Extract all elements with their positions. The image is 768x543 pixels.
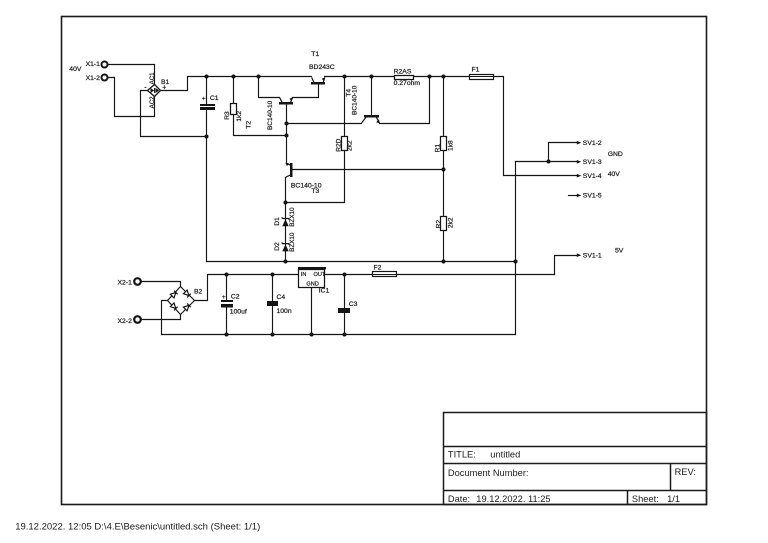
svg-text:TITLE:: TITLE: [448, 449, 476, 459]
diode B2 top-right [183, 290, 190, 297]
bridge rectifier B1 [144, 72, 169, 109]
wire R2 bottom [443, 231, 445, 262]
pin SV1-4 [577, 173, 602, 180]
svg-text:C2: C2 [231, 294, 240, 301]
svg-text:2k2: 2k2 [447, 217, 454, 228]
svg-text:X1-2: X1-2 [86, 75, 101, 82]
capacitor C4 100n [267, 294, 292, 315]
pin SV1-1 [577, 253, 602, 260]
diode B2 bottom-right [183, 304, 190, 311]
junction GND rail / zeners [284, 260, 288, 264]
wire T2 emitter to T1 base [293, 85, 319, 98]
wire C4 top [272, 275, 274, 301]
wire X1-2 to B1 AC2 [109, 78, 155, 117]
pad X1-1 [86, 61, 108, 68]
pin SV1-2 [577, 140, 602, 147]
svg-text:1k8: 1k8 [447, 140, 454, 151]
wire C4 bottom [272, 307, 274, 335]
resistor R1 value 1k8 [434, 137, 454, 153]
svg-text:B2: B2 [194, 289, 203, 296]
svg-text:T2: T2 [245, 121, 252, 129]
wire B1 plus to 40V rail [161, 77, 312, 91]
wire R1 top [443, 77, 445, 137]
svg-text:X2-2: X2-2 [118, 318, 133, 325]
wire F2 to SV1-1 riser [397, 274, 555, 276]
svg-text:BC140-10: BC140-10 [267, 100, 274, 130]
wire C2 top [226, 275, 228, 301]
svg-text:C4: C4 [277, 294, 286, 301]
svg-text:OUT: OUT [314, 272, 326, 278]
wire rail T1 emitter to R2AS [325, 76, 395, 78]
svg-text:F2: F2 [374, 265, 382, 272]
svg-text:R3: R3 [224, 111, 231, 120]
wire rail R2AS to F1 [414, 76, 470, 78]
wire T4 emitter riser [380, 77, 430, 124]
diode B2 top-left [170, 291, 177, 298]
svg-text:GND: GND [306, 281, 318, 287]
svg-text:BD243C: BD243C [309, 64, 335, 71]
wire T2 base to T4 collector [287, 123, 362, 125]
wire SV1-1 [555, 256, 578, 275]
svg-text:R2: R2 [436, 220, 443, 229]
diode B2 bottom-left [170, 303, 177, 310]
svg-text:SV1-5: SV1-5 [583, 193, 602, 200]
junction 40V rail / T2 collector [257, 75, 261, 79]
electrolytic capacitor C1 [200, 95, 219, 110]
svg-text:1k2: 1k2 [236, 111, 243, 122]
svg-text:T3: T3 [311, 188, 319, 195]
fuse F1 [470, 66, 495, 79]
junction 40V rail / R3 [232, 75, 236, 79]
svg-text:1/1: 1/1 [667, 494, 680, 504]
svg-text:REV:: REV: [675, 467, 696, 477]
wire X2-1 to B2 [141, 282, 181, 287]
svg-text:100n: 100n [277, 308, 292, 315]
svg-text:IN: IN [301, 272, 307, 278]
junction 40V rail / T4 emitter [428, 75, 432, 79]
wire upper GND rail [207, 261, 516, 263]
svg-text:100uf: 100uf [230, 308, 247, 315]
junction 40V rail / C1 [205, 75, 209, 79]
svg-text:R2AS: R2AS [394, 68, 412, 75]
junction SV1-2 / SV1-3 [547, 160, 551, 164]
pin SV1-3 [577, 159, 602, 166]
svg-text:AC2: AC2 [149, 96, 156, 109]
svg-text:0.27ohm: 0.27ohm [394, 80, 421, 87]
wire B1 minus to GND node [141, 91, 207, 137]
resistor R3 value 1k2 [224, 104, 243, 122]
junction 40V rail / R1 [442, 75, 446, 79]
transistor T4 BC140-10 [345, 85, 379, 123]
svg-text:R2D: R2D [335, 138, 342, 151]
svg-text:+: + [222, 294, 226, 301]
pad X1-2 [86, 75, 108, 82]
junction lower GND / C3 [343, 333, 347, 337]
wire R2D top [344, 77, 346, 137]
wire T3 base to divider [293, 169, 444, 171]
svg-text:BC140-10: BC140-10 [352, 85, 359, 115]
resistor R2 value 2k2 [436, 217, 455, 231]
wire IC1 GND pin [311, 288, 313, 335]
junction lower GND / C4 [271, 333, 275, 337]
wire B2 minus to lower GND rail [162, 301, 168, 335]
svg-text:+: + [162, 85, 166, 92]
svg-text:5V: 5V [615, 248, 624, 255]
svg-text:AC1: AC1 [149, 72, 156, 85]
pin SV1-5 [577, 193, 602, 200]
junction 5V rail / C3 [343, 273, 347, 277]
pad X2-2 [118, 316, 141, 325]
junction B1 minus / C1 [205, 135, 209, 139]
wire R3 top [233, 77, 235, 104]
fuse F2 [373, 265, 397, 277]
svg-text:2k2: 2k2 [346, 140, 353, 151]
wire SV1-2 [549, 143, 578, 162]
junction T2 base / T4 collector [285, 122, 289, 126]
junction 40V rail / R2D [343, 75, 347, 79]
transistor T1 BD243C [309, 51, 335, 85]
wire T4 base [371, 77, 373, 115]
svg-text:Document Number:: Document Number: [448, 468, 529, 478]
wire C2 bottom [226, 308, 228, 335]
svg-text:C3: C3 [349, 301, 358, 308]
wire C3 bottom [344, 314, 346, 335]
svg-text:BZX10: BZX10 [289, 207, 296, 227]
svg-text:19.12.2022. 11:25: 19.12.2022. 11:25 [476, 494, 550, 504]
junction 40V rail / T4 base [370, 75, 374, 79]
wire R1 bottom to R2 top [443, 152, 445, 217]
junction zener node / R2D [284, 201, 288, 205]
svg-text:BZX10: BZX10 [289, 232, 296, 252]
wire R3 bottom to T2 base [234, 115, 287, 136]
resistor R2D value 2k2 [335, 137, 353, 152]
svg-text:SV1-3: SV1-3 [583, 159, 602, 166]
svg-text:X1-1: X1-1 [86, 61, 101, 68]
voltage regulator IC1 7805 [298, 267, 330, 294]
wire T2 base down to T3 [286, 105, 288, 163]
svg-text:SV1-2: SV1-2 [583, 140, 602, 147]
title block [444, 413, 707, 505]
wire lower GND rail [162, 334, 516, 336]
wire B2 plus to IC1 IN [195, 275, 299, 301]
wire C3 top [344, 275, 346, 309]
svg-text:untitled: untitled [490, 449, 520, 459]
bridge rectifier B2 [168, 287, 195, 315]
electrolytic capacitor C2 100uf [221, 294, 247, 316]
wire C1 top [206, 77, 208, 105]
capacitor C3 [338, 301, 358, 313]
svg-text:X2-1: X2-1 [118, 280, 133, 287]
wire T3 to GND via zeners [285, 178, 287, 262]
svg-text:F1: F1 [472, 66, 480, 73]
wire X2-2 to B2 [141, 315, 181, 320]
svg-text:D1: D1 [274, 217, 281, 226]
junction GND rail / R2 [442, 260, 446, 264]
junction 5V rail / C2 [225, 273, 229, 277]
wire SV1-3 [516, 161, 578, 163]
junction GND rail / GND riser [514, 260, 518, 264]
wire F1 to SV1-4 [495, 77, 578, 176]
wire C1 bottom to GND rail [206, 111, 208, 262]
wire SV1-5 stub [569, 195, 578, 197]
svg-text:40V: 40V [69, 66, 82, 73]
junction T2 base / R3 [285, 134, 289, 138]
svg-text:40V: 40V [608, 171, 621, 178]
svg-text:19.12.2022. 12:05 D:\4.E\Besen: 19.12.2022. 12:05 D:\4.E\Besenic\untitle… [15, 522, 260, 533]
svg-text:SV1-1: SV1-1 [583, 253, 602, 260]
zener diode D2 BZX10 [274, 232, 296, 252]
transistor T2 BC140-10 [245, 97, 293, 130]
wire IC1 OUT to F2 [325, 274, 373, 276]
title block text [448, 449, 696, 504]
junction 5V rail / C4 [271, 273, 275, 277]
svg-text:D2: D2 [274, 242, 281, 251]
junction divider / T3 base [442, 168, 446, 172]
zener diode D1 BZX10 [274, 207, 296, 227]
pad X2-1 [118, 278, 141, 286]
drawing frame [62, 17, 707, 505]
svg-text:+: + [202, 96, 206, 103]
svg-text:R1: R1 [434, 144, 441, 153]
wire GND riser [515, 162, 517, 335]
wire X1-1 to B1 AC1 [109, 65, 155, 85]
svg-text:Date:: Date: [448, 494, 470, 504]
wire R2D bottom to zener node [286, 152, 345, 203]
svg-text:T1: T1 [311, 51, 319, 58]
current sense resistor R2AS 0.27ohm [394, 68, 421, 87]
transistor T3 BC140-10 [285, 163, 321, 196]
junction lower GND / C2 [225, 333, 229, 337]
wire T2 collector feed [259, 77, 280, 98]
svg-text:Sheet:: Sheet: [632, 494, 659, 504]
svg-text:SV1-4: SV1-4 [583, 173, 602, 180]
svg-text:GND: GND [608, 151, 623, 158]
junction lower GND / IC1 [310, 333, 314, 337]
svg-text:C1: C1 [210, 95, 219, 102]
svg-text:IC1: IC1 [319, 287, 330, 294]
